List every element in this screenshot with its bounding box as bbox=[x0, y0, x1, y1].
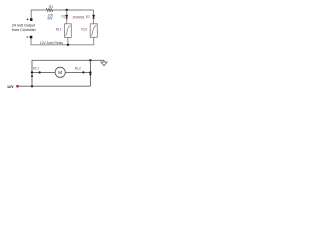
node contact RL2 bbox=[82, 71, 84, 73]
diode D2 bbox=[92, 15, 94, 18]
node junction on top rail bbox=[66, 9, 68, 11]
node lower stub on left rail bbox=[31, 75, 33, 77]
relay coil RL2 box bbox=[90, 24, 97, 38]
wire: motor rail bbox=[32, 71, 90, 73]
svg-text:D2: D2 bbox=[86, 15, 90, 19]
diode D1 bbox=[66, 15, 68, 18]
resistor R1 bbox=[45, 9, 53, 12]
node junction rail A / right vertical bbox=[89, 59, 91, 61]
svg-text:5W: 5W bbox=[47, 16, 53, 20]
svg-text:M: M bbox=[58, 70, 62, 75]
node contact RL1 bbox=[39, 71, 41, 73]
arrow output to load bbox=[101, 62, 107, 66]
svg-text:RL2: RL2 bbox=[81, 28, 87, 32]
node junction motor rail / left rail bbox=[31, 71, 33, 73]
svg-text:12V: 12V bbox=[7, 85, 14, 89]
wire: left rail bbox=[32, 60, 104, 86]
svg-text:D1: D1 bbox=[61, 15, 65, 19]
terminal + (24V positive) bbox=[30, 18, 33, 21]
node junction motor rail / right rail bbox=[89, 71, 91, 73]
terminal - (24V negative) bbox=[30, 36, 33, 39]
wire: top rail from R1 to D2 corner bbox=[54, 9, 94, 11]
svg-text:24 Volt Output: 24 Volt Output bbox=[12, 23, 35, 27]
node junction bottom rail / left rail bbox=[31, 85, 33, 87]
svg-text:RL1: RL1 bbox=[33, 67, 39, 71]
svg-text:R1: R1 bbox=[49, 5, 53, 9]
wire: D2 branch vertical bbox=[93, 10, 95, 24]
wire: + terminal riser and top rail to R1 bbox=[31, 10, 45, 18]
svg-text:12V Auto Relay: 12V Auto Relay bbox=[40, 41, 64, 45]
wire: RL2 box bottom to return rail bbox=[93, 37, 95, 45]
svg-text:from Controller: from Controller bbox=[12, 28, 37, 32]
node lower stub on right rail bbox=[89, 73, 91, 75]
wire: RL1 box bottom to return rail bbox=[67, 37, 69, 44]
motor M1 bbox=[55, 67, 65, 77]
wire: right vertical rail bbox=[89, 60, 91, 86]
node junction on return rail bbox=[67, 44, 69, 46]
wire: return rail of coil circuit bbox=[31, 38, 94, 45]
terminal 12V red node bbox=[16, 85, 19, 88]
svg-text:1N4001: 1N4001 bbox=[72, 16, 85, 20]
svg-text:RL2: RL2 bbox=[75, 67, 81, 71]
relay coil RL1 box bbox=[65, 24, 72, 38]
wire: D1 branch vertical bbox=[66, 10, 68, 24]
wire: bottom rail from 12V to right rail bbox=[19, 85, 91, 87]
svg-text:RL1: RL1 bbox=[56, 28, 62, 32]
